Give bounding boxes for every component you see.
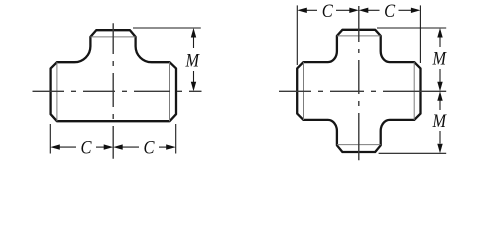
tee dimension C: left extension line [49,124,51,154]
cross dimension M upper: extension line from top face [377,27,446,29]
cross band line bottom port [337,144,381,146]
tee dimension M: top extension line [133,27,201,29]
cross horizontal centerline [279,90,446,92]
tee dimension M: dimension line with arrows [193,38,195,49]
tee horizontal centerline [33,90,202,92]
cross fitting body outline [297,30,420,152]
cross dimension M lower: extension line from bottom face [379,152,447,154]
svg-text:C: C [322,2,334,22]
cross dimension M lower: dimension line with arrows [439,101,441,111]
svg-text:C: C [81,139,93,159]
cross dimension C: left extension line [296,5,298,65]
cross band line right port [413,62,415,120]
cross band line left port [303,62,305,120]
cross dimension C: right extension line [419,5,421,63]
svg-text:M: M [432,112,448,132]
svg-text:M: M [432,50,448,70]
tee vertical centerline [112,23,114,159]
tee dimension C left span: arrows and line [59,146,77,148]
svg-text:M: M [185,52,201,72]
tee fitting body outline [51,30,176,121]
cross vertical centerline [358,6,360,160]
cross dimension M upper: dimension line with arrows [439,38,441,48]
cross dimension C right span: arrows and line [367,9,380,11]
tee band line left port [56,62,58,121]
tee dimension C right span: arrows and line [121,146,139,148]
cross band line top port [337,35,381,37]
svg-text:C: C [144,139,156,159]
svg-text:C: C [384,2,396,22]
tee dimension C: right extension line [175,124,177,154]
tee band line top outlet [90,36,135,38]
tee band line right port [169,62,171,121]
cross dimension C left span: arrows and line [306,9,318,11]
